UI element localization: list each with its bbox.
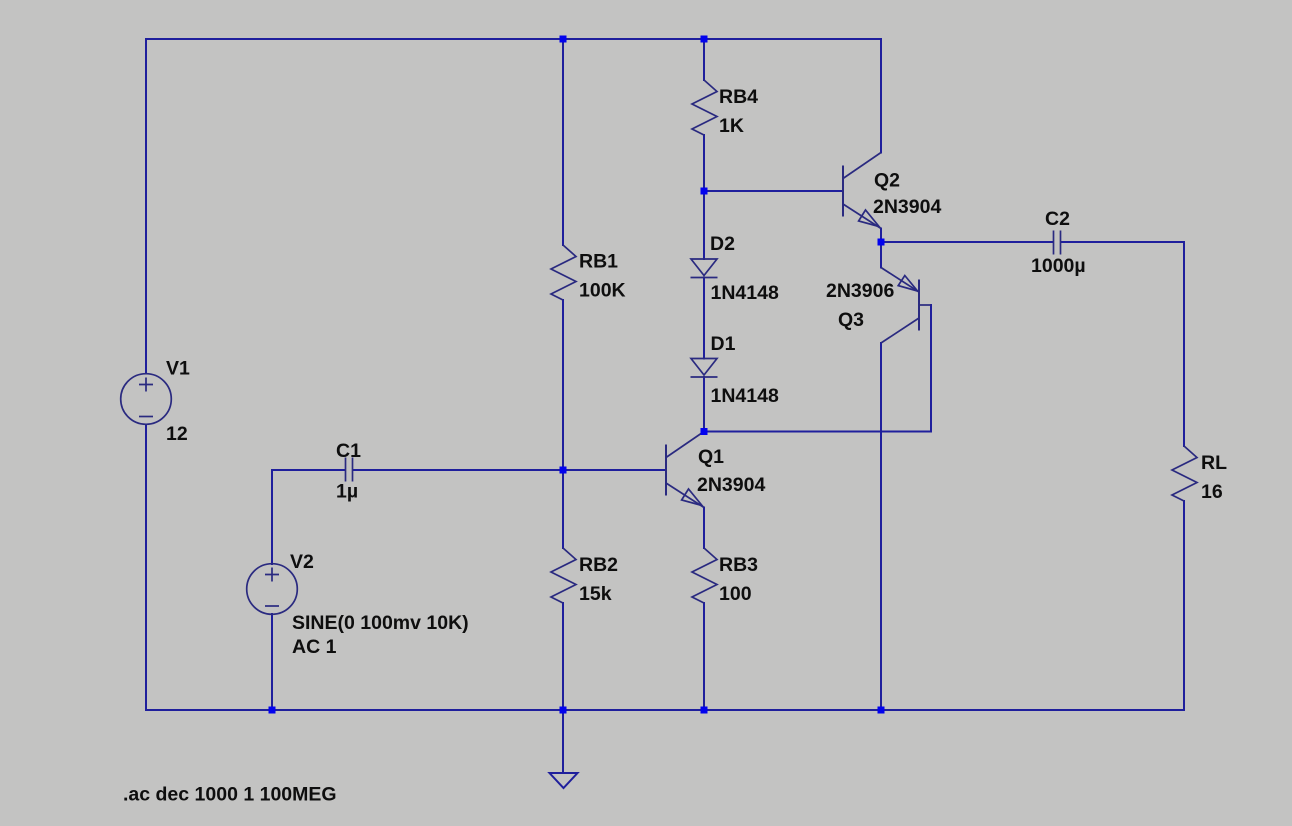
resistor RL <box>1172 446 1197 501</box>
svg-text:AC 1: AC 1 <box>292 636 337 658</box>
wire right rail to RL <box>1183 242 1185 446</box>
svg-text:1000µ: 1000µ <box>1031 255 1086 277</box>
ground <box>550 773 578 788</box>
svg-text:RB4: RB4 <box>719 86 758 108</box>
capacitor C2 <box>1054 231 1061 255</box>
diode D1 <box>691 359 718 378</box>
wire col2 top (to RB4) <box>703 39 705 80</box>
svg-text:1µ: 1µ <box>336 481 358 503</box>
svg-text:2N3904: 2N3904 <box>873 196 941 218</box>
node RB4 / Q2 base <box>701 188 708 195</box>
svg-text:V2: V2 <box>290 551 314 573</box>
resistor RB2 <box>551 548 576 603</box>
wire D1 to Q1 collector node <box>703 377 705 432</box>
svg-text:2N3904: 2N3904 <box>697 474 765 496</box>
svg-text:RL: RL <box>1201 452 1227 474</box>
svg-text:Q1: Q1 <box>698 446 724 468</box>
wire C1 left segment <box>272 469 345 471</box>
wire V2 bottom <box>271 614 273 710</box>
resistor RB4 <box>692 80 717 135</box>
svg-text:RB2: RB2 <box>579 554 618 576</box>
wire RL to rail <box>1183 501 1185 710</box>
node D1 / Q1 collector / Q3 base <box>701 428 708 435</box>
wire C1 right segment <box>353 469 563 471</box>
wire Q3 emitter stub <box>880 242 882 268</box>
transistor Q3 <box>881 268 931 344</box>
svg-text:1K: 1K <box>719 115 744 137</box>
svg-text:RB3: RB3 <box>719 554 758 576</box>
wire RB3 to rail <box>703 603 705 710</box>
wire left rail upper <box>145 39 147 374</box>
wire Q1 emitter to RB3 <box>703 508 705 549</box>
svg-text:1N4148: 1N4148 <box>711 282 779 304</box>
svg-text:SINE(0 100mv 10K): SINE(0 100mv 10K) <box>292 612 469 634</box>
node top rail / RB4 <box>701 36 708 43</box>
wire col1 mid (RB1 to RB2, node at 470) <box>562 300 564 548</box>
svg-text:.ac dec 1000 1 100MEG: .ac dec 1000 1 100MEG <box>123 784 337 806</box>
wire D2 to D1 <box>703 278 705 359</box>
svg-text:100: 100 <box>719 583 752 605</box>
svg-text:Q2: Q2 <box>874 170 900 192</box>
voltage source V2 <box>247 564 298 615</box>
wire top rail <box>146 38 881 40</box>
svg-text:2N3906: 2N3906 <box>826 280 894 302</box>
wire left rail lower <box>145 425 147 711</box>
svg-text:D1: D1 <box>711 333 736 355</box>
wire Q3 base run <box>704 305 931 432</box>
wire bottom rail <box>146 709 1184 711</box>
svg-text:15k: 15k <box>579 583 612 605</box>
wire RB4 to D2 (node at 191) <box>703 135 705 259</box>
wire Q1 base <box>563 469 666 471</box>
node RB2 / ground <box>560 707 567 714</box>
wire V2 top <box>271 470 273 564</box>
svg-text:RB1: RB1 <box>579 251 618 273</box>
wire C2 right segment <box>1061 241 1184 243</box>
wire col1 bottom (RB2 to rail) <box>562 603 564 710</box>
svg-text:16: 16 <box>1201 481 1223 503</box>
capacitor C1 <box>346 458 353 482</box>
svg-text:V1: V1 <box>166 358 190 380</box>
svg-text:D2: D2 <box>710 233 735 255</box>
node Q3 collector / bottom rail <box>878 707 885 714</box>
wire Q3 collector drop <box>880 343 882 710</box>
node V2 / bottom rail <box>269 707 276 714</box>
resistor RB1 <box>551 245 576 300</box>
svg-text:Q3: Q3 <box>838 309 864 331</box>
wire Q2 emitter to node <box>880 229 882 243</box>
node top rail / RB1 <box>560 36 567 43</box>
svg-text:C1: C1 <box>336 440 361 462</box>
node RB3 / bottom rail <box>701 707 708 714</box>
svg-text:1N4148: 1N4148 <box>711 385 779 407</box>
wire Q2 base <box>704 190 843 192</box>
transistor Q2 <box>843 153 881 229</box>
transistor Q1 <box>666 432 704 508</box>
wire col1 top (to RB1) <box>562 39 564 245</box>
resistor RB3 <box>692 548 717 603</box>
node C1 / RB1 / Q1 base <box>560 467 567 474</box>
svg-text:C2: C2 <box>1045 208 1070 230</box>
svg-text:100K: 100K <box>579 280 626 302</box>
wire Q2 collector drop <box>880 39 882 153</box>
node Q2 emitter / C2 / Q3 emitter <box>878 239 885 246</box>
voltage source V1 <box>121 374 172 425</box>
wire ground stem <box>562 710 564 773</box>
svg-text:12: 12 <box>166 423 188 445</box>
diode D2 <box>691 259 718 278</box>
wire C2 left segment <box>881 241 1053 243</box>
